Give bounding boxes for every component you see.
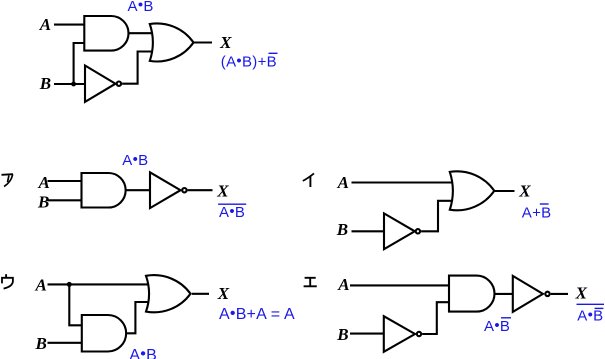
blue label (A·B)+B with overline on last B <box>221 53 278 71</box>
svg-text:A•B: A•B <box>129 346 157 359</box>
wire: B to AND G8 <box>48 342 83 344</box>
AND gate G1 <box>84 16 128 51</box>
wire: A to OR G9 <box>48 283 150 285</box>
wire: G8 output up to OR G9 lower input <box>126 302 150 333</box>
svg-text:X: X <box>217 284 230 303</box>
NOT gate G7 bubble <box>416 229 420 233</box>
wire: G1 output to OR gate G3 upper input <box>128 32 153 34</box>
wire: G5 output to X <box>188 189 213 191</box>
junction dot on A wire <box>67 282 72 287</box>
svg-text:X: X <box>216 182 229 201</box>
wire: junction up to AND gate G1 second input <box>74 43 86 84</box>
wire: G7 output up to OR G6 lower input <box>421 201 452 232</box>
label ア (option a) <box>2 174 14 186</box>
OR gate G3 <box>150 23 194 61</box>
wire: B input to NOT gate G2 <box>54 83 86 85</box>
blue label A+B with overline on B <box>522 204 552 222</box>
junction dot on B wire <box>71 82 76 87</box>
wire: A to AND G11 <box>350 284 450 286</box>
NOT gate G7 triangle <box>384 213 415 249</box>
svg-text:B: B <box>35 334 47 353</box>
blue label A·B with overline on B (below AND G11) <box>484 317 511 335</box>
AND gate G11 <box>449 276 495 312</box>
svg-text:X: X <box>518 181 531 200</box>
NOT gate G12 triangle <box>513 276 543 312</box>
wire: B to NOT G7 <box>352 230 386 232</box>
svg-text:A+B: A+B <box>522 205 552 222</box>
svg-text:A•B: A•B <box>128 0 154 15</box>
NOT gate G12 bubble <box>545 292 549 296</box>
wire: G3 output to X <box>194 41 213 43</box>
NOT gate G10 triangle <box>384 316 415 352</box>
label エ (option e) <box>304 278 317 287</box>
blue label A·B-bar with full overline <box>577 304 605 324</box>
wire: G4 output to NOT G5 <box>126 189 151 191</box>
wire: G9 output to X <box>192 293 209 295</box>
svg-text:A: A <box>337 275 349 294</box>
svg-text:A: A <box>39 15 51 34</box>
svg-text:X: X <box>575 284 588 303</box>
wire: G2 output up to OR gate G3 lower input <box>122 52 153 84</box>
svg-text:B: B <box>37 192 49 211</box>
OR gate G6 <box>450 171 495 210</box>
svg-text:A•B: A•B <box>577 307 603 325</box>
label ウ (option u) <box>2 274 13 288</box>
wire: G10 output up to AND G11 lower input <box>422 302 450 334</box>
svg-text:A: A <box>337 173 349 192</box>
wire: B to NOT G10 <box>350 333 385 335</box>
NOT gate G5 triangle <box>150 172 181 208</box>
svg-text:A: A <box>35 276 47 295</box>
wire: A to OR G6 <box>352 181 453 183</box>
wire: A to AND gate G1 <box>54 24 85 26</box>
svg-text:(A•B)+B: (A•B)+B <box>221 53 277 71</box>
AND gate G4 <box>82 173 126 208</box>
wire: junction down to AND G8 upper input <box>69 284 82 325</box>
NOT gate G2 triangle <box>85 66 116 102</box>
svg-text:B: B <box>336 220 348 239</box>
svg-text:X: X <box>219 33 232 52</box>
wire: G6 output to X <box>495 190 515 192</box>
wire: G12 output to X <box>551 293 568 295</box>
wire: G11 output to NOT G12 <box>494 293 513 295</box>
label イ (option i) <box>303 173 314 187</box>
svg-text:B: B <box>39 74 51 93</box>
NOT gate G10 bubble <box>417 332 421 336</box>
svg-text:A: A <box>38 173 50 192</box>
NOT gate G2 bubble <box>117 82 121 86</box>
svg-text:A•B: A•B <box>484 317 510 335</box>
blue label A·B with full overline <box>218 203 246 221</box>
svg-text:B: B <box>336 325 348 344</box>
svg-text:A•B: A•B <box>122 151 148 169</box>
OR gate G9 <box>146 275 191 312</box>
svg-text:A•B: A•B <box>219 203 245 221</box>
NOT gate G5 bubble <box>182 188 186 192</box>
wire: A to AND G4 <box>48 180 83 182</box>
svg-text:A•B+A = A: A•B+A = A <box>219 305 295 323</box>
wire: B to AND G4 <box>48 199 83 201</box>
AND gate G8 <box>82 315 126 352</box>
